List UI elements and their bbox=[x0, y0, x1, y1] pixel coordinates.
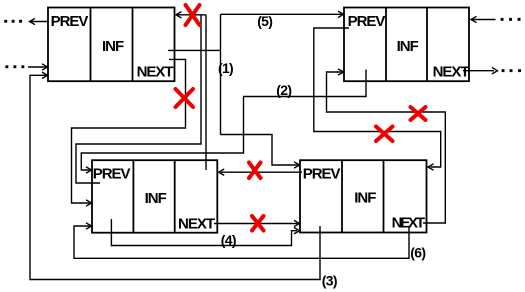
cross X1 on line into TL right edge bbox=[186, 5, 200, 25]
arrow right into BL left edge upper bbox=[86, 167, 92, 173]
wire TR.NEXT to right dots bbox=[463, 70, 494, 72]
node TL divider 1 bbox=[90, 8, 92, 82]
svg-text:INF: INF bbox=[397, 38, 419, 55]
arrow right into TR left edge top bbox=[338, 11, 344, 17]
arrow left into BL right edge bbox=[219, 169, 225, 175]
node BR divider 2 bbox=[383, 160, 385, 232]
arrow right into BR left edge lower bbox=[294, 228, 300, 234]
svg-text:NEXT: NEXT bbox=[433, 63, 470, 80]
wire BL.PREV source up (via x201) bbox=[76, 15, 201, 183]
node BL divider 2 bbox=[174, 160, 176, 233]
wire (5) to TR node bbox=[221, 13, 344, 15]
arrow right into BL left edge lower bbox=[86, 223, 92, 229]
wire (2) TR.PREV to BL node bbox=[81, 70, 366, 171]
wire TL.NEXT branch stem bbox=[168, 49, 221, 51]
svg-text:PREV: PREV bbox=[93, 165, 131, 182]
svg-text:(5): (5) bbox=[257, 13, 272, 29]
dots right top row bbox=[501, 18, 504, 21]
arrow left into BR right edge bbox=[428, 164, 434, 170]
svg-text:NEXT: NEXT bbox=[178, 215, 215, 232]
wire TL.PREV to left dots bbox=[29, 21, 48, 23]
wire (3) path BR.PREV to TL node bbox=[30, 75, 320, 279]
wire TL.NEXT to BL node bbox=[72, 59, 186, 203]
svg-text:(3): (3) bbox=[322, 273, 337, 289]
arrow left into TR right edge bbox=[471, 16, 477, 22]
node TR box bbox=[344, 8, 469, 82]
wire (1) to BR node bbox=[221, 135, 298, 166]
svg-text:PREV: PREV bbox=[303, 165, 341, 182]
cross X3 on BR.NEXT to TR line bbox=[411, 107, 426, 120]
cross X6 on BL.NEXT to BR line bbox=[252, 216, 264, 231]
arrow right into TL left edge lower bbox=[42, 72, 48, 78]
svg-text:(6): (6) bbox=[410, 245, 425, 261]
node TL box bbox=[48, 8, 175, 82]
arrow right into TL left edge upper bbox=[42, 64, 48, 70]
svg-text:INF: INF bbox=[354, 190, 376, 207]
node BL divider 1 bbox=[132, 160, 134, 233]
node BL box bbox=[92, 160, 217, 233]
cross X2 on TL.NEXT to BL line bbox=[176, 89, 194, 107]
svg-text:INF: INF bbox=[145, 190, 167, 207]
arrow right into BL left edge mid bbox=[86, 200, 92, 206]
cross X5 on BR.PREV to BL line bbox=[249, 163, 261, 179]
svg-text:PREV: PREV bbox=[51, 13, 89, 30]
arrow right into TR left edge lower bbox=[338, 69, 344, 75]
wire BL.NEXT source up (x206) bbox=[205, 15, 207, 170]
svg-text:PREV: PREV bbox=[348, 13, 386, 30]
wire TR.PREV source to BR right edge bbox=[314, 28, 441, 167]
node BR box bbox=[300, 160, 427, 232]
wire BR.NEXT source to TR left edge bbox=[327, 72, 446, 223]
dots left top row bbox=[4, 20, 7, 23]
svg-text:NEXT: NEXT bbox=[392, 214, 425, 231]
wire (6) BR.NEXT to BL node bbox=[74, 226, 409, 258]
wire (4) BL to BR bbox=[111, 219, 297, 246]
wire left dots into TL left edge bbox=[28, 66, 47, 68]
svg-text:NEXT: NEXT bbox=[137, 63, 174, 80]
cross X4 on TR.PREV to BR line bbox=[376, 127, 393, 142]
node TL divider 2 bbox=[132, 8, 134, 82]
arrow right at TR.NEXT out bbox=[492, 68, 498, 74]
wire BR.PREV old pointer to BL node bbox=[221, 171, 302, 173]
wire (5)/(1) vertical bbox=[220, 14, 222, 134]
node TR divider 2 bbox=[426, 8, 428, 82]
svg-text:(2): (2) bbox=[276, 82, 291, 98]
arrow right into BR left edge top bbox=[294, 162, 300, 168]
svg-text:(4): (4) bbox=[221, 232, 236, 248]
node BR divider 1 bbox=[341, 160, 343, 232]
wire from BL cells up into TL right edge bbox=[176, 14, 206, 16]
dots right bottom row bbox=[502, 69, 505, 72]
svg-text:INF: INF bbox=[102, 38, 124, 55]
svg-text:(1): (1) bbox=[218, 60, 233, 76]
wire right dots into TR right edge bbox=[472, 19, 496, 21]
dots left bottom row bbox=[5, 65, 8, 68]
node TR divider 1 bbox=[385, 8, 387, 82]
wire BL.NEXT source to BR left edge bbox=[214, 223, 298, 225]
arrow left at TL.PREV out bbox=[30, 18, 36, 24]
arrow right into BR left edge mid bbox=[294, 220, 300, 226]
arrow left into TL right edge bbox=[176, 12, 182, 18]
